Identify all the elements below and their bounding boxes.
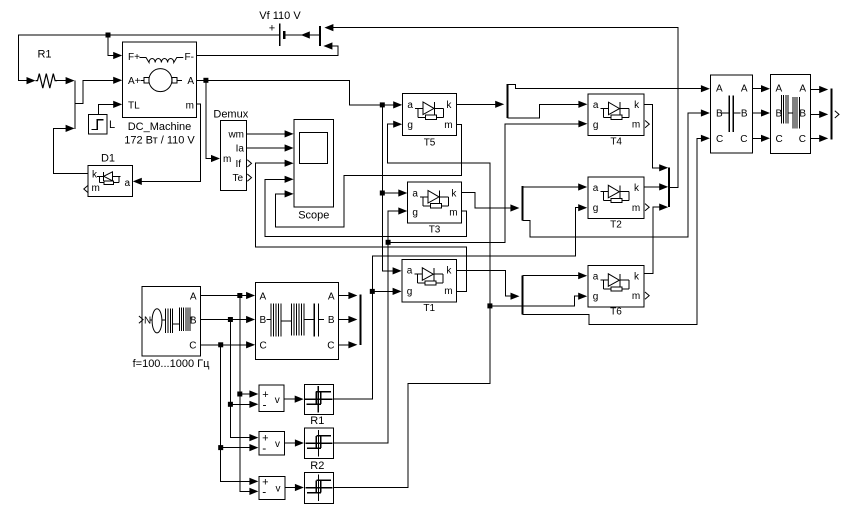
svg-text:R2: R2	[310, 460, 324, 472]
svg-text:a: a	[593, 100, 599, 111]
svg-text:B: B	[716, 109, 723, 120]
node source C branch	[218, 342, 223, 347]
wire Demux wm to Scope	[247, 130, 294, 137]
svg-text:172 Вт / 110 V: 172 Вт / 110 V	[124, 135, 195, 147]
wire DC+ feedback from bridge to battery bar	[324, 24, 677, 188]
svg-text:-: -	[263, 398, 267, 412]
node R3 gate branch	[487, 303, 492, 308]
wire R2 gate branch to T4 g	[388, 120, 587, 242]
svg-text:m: m	[223, 154, 231, 165]
wire machine m to D1 anode	[133, 104, 201, 185]
wire anode bus vertical to T1	[382, 105, 401, 275]
wire phase bar C to measurement block C input	[523, 135, 710, 325]
svg-text:R1: R1	[37, 49, 51, 61]
node phase C at comp2	[218, 445, 223, 450]
svg-text:A: A	[776, 84, 783, 95]
wire battery-pos to summing bar	[284, 31, 320, 38]
svg-text:Scope: Scope	[298, 210, 329, 222]
unconnected chevron Demux If	[247, 160, 251, 167]
block DC_Machine	[123, 42, 197, 147]
wire waveform A to mux bar	[810, 86, 828, 93]
wire T3 k to phase bar B	[461, 193, 519, 212]
svg-text:A+: A+	[128, 76, 141, 87]
thyristor block T6	[588, 266, 649, 318]
svg-text:m: m	[444, 120, 452, 131]
svg-text:a: a	[407, 266, 413, 277]
wire source A to transformer A	[201, 292, 256, 299]
wire phase A to comparator inputs	[240, 296, 259, 496]
svg-text:v: v	[275, 395, 280, 406]
svg-text:T1: T1	[423, 303, 435, 314]
wire armature node vertical	[74, 81, 76, 129]
wire R3 gate branch to T6 g	[490, 293, 587, 306]
svg-text:Demux: Demux	[213, 109, 248, 121]
svg-text:a: a	[412, 188, 418, 199]
svg-text:v: v	[276, 483, 281, 494]
node phase bar C	[522, 276, 524, 315]
step source L	[88, 115, 115, 134]
wire meas C to waveform C	[753, 135, 770, 142]
node R1 gate branch	[370, 289, 375, 294]
block Scope	[294, 120, 334, 222]
svg-text:T4: T4	[610, 137, 622, 148]
svg-text:g: g	[593, 203, 599, 214]
block Demux	[213, 109, 248, 191]
svg-text:F-: F-	[185, 52, 194, 63]
svg-text:g: g	[593, 291, 599, 302]
wire T4 k to DC+ bar	[644, 104, 668, 171]
wire relay R2 gate line to T3 g	[333, 207, 407, 443]
svg-text:A: A	[716, 84, 723, 95]
wire node to F+ port	[108, 35, 122, 59]
unconnected chevron Demux Te	[247, 174, 251, 181]
wire meas B to waveform B	[753, 109, 770, 116]
node anode branch at T5	[380, 102, 385, 107]
svg-text:T3: T3	[429, 225, 441, 236]
svg-text:R1: R1	[310, 415, 324, 427]
block waveform ABC	[771, 74, 811, 153]
svg-text:a: a	[593, 183, 599, 194]
node mux bar right	[830, 89, 832, 140]
svg-text:C: C	[327, 340, 334, 351]
thyristor block T3	[408, 182, 462, 235]
thyristor block T5	[403, 94, 457, 149]
source block f=100...1000 Hz	[133, 286, 210, 370]
wire source B to transformer B	[201, 316, 256, 323]
wire T1 k to phase bar C	[456, 271, 519, 300]
transformer block ABC	[256, 283, 339, 360]
wire phase bar B to T2 a	[522, 183, 587, 190]
relay R1	[304, 384, 333, 427]
wire Demux Ia to Scope	[247, 144, 294, 151]
svg-text:f=100...1000 Гц: f=100...1000 Гц	[133, 358, 210, 370]
svg-text:-: -	[262, 485, 266, 499]
svg-text:A: A	[328, 291, 335, 302]
diode block D1	[88, 153, 132, 197]
svg-text:T6: T6	[610, 307, 622, 318]
node bar at battery	[319, 26, 321, 46]
wire anode branch to T3 a	[382, 189, 407, 196]
node phase B at comp1	[228, 402, 233, 407]
svg-text:a: a	[593, 272, 599, 283]
svg-text:Te: Te	[232, 173, 243, 184]
wire phase C to comparator inputs	[221, 345, 259, 485]
svg-text:m: m	[444, 286, 452, 297]
svg-text:N: N	[144, 315, 151, 326]
svg-text:C: C	[776, 134, 783, 145]
svg-text:C: C	[799, 134, 806, 145]
wire node to Demux m input	[206, 80, 220, 162]
svg-text:D1: D1	[101, 153, 115, 165]
svg-text:B: B	[328, 315, 335, 326]
unconnected chevron D1 m	[84, 185, 88, 192]
wire F- return to battery bar	[196, 42, 338, 55]
svg-text:g: g	[412, 208, 418, 219]
wire comp1 to relay R1	[284, 396, 304, 403]
svg-text:Vf 110 V: Vf 110 V	[259, 10, 301, 22]
wire R1 gate branch to T1 g	[372, 288, 401, 295]
wire relay R1 gate line to T2 g	[333, 204, 587, 399]
svg-text:+: +	[269, 23, 275, 35]
wire T3 m measurement loop to Scope input 4	[265, 176, 466, 237]
wire waveform C to mux bar	[810, 135, 828, 142]
svg-text:A: A	[187, 76, 194, 87]
svg-text:T5: T5	[424, 138, 436, 149]
node source B branch	[228, 317, 233, 322]
wire D1 cathode to armature node	[54, 125, 88, 174]
svg-text:g: g	[407, 286, 413, 297]
comparator U1	[259, 385, 284, 412]
svg-text:g: g	[593, 120, 599, 131]
thyristor block T1	[402, 260, 456, 315]
svg-text:B: B	[260, 315, 267, 326]
wire phase bar A to T4 a	[508, 101, 588, 119]
wire transformer A out to bus bar	[339, 292, 358, 299]
wire phase bar B to measurement block B input	[522, 109, 710, 236]
comparator U2	[259, 432, 285, 455]
wire phase bar C to T6 a	[523, 272, 588, 279]
thyristor block T2	[588, 177, 649, 231]
svg-text:DC_Machine: DC_Machine	[128, 121, 192, 133]
wire T5 k to phase bar A	[456, 101, 504, 108]
relay R3	[305, 472, 334, 503]
wire armature A to T5 anode	[196, 80, 402, 108]
svg-text:Ia: Ia	[236, 143, 245, 154]
svg-text:m: m	[186, 101, 194, 112]
svg-text:C: C	[189, 340, 196, 351]
node DC+ bar	[668, 168, 670, 208]
svg-text:TL: TL	[128, 101, 140, 112]
svg-text:A: A	[190, 292, 197, 303]
wire node jog to A+ port	[75, 77, 122, 104]
svg-text:g: g	[407, 120, 413, 131]
wire R1 output to armature node	[56, 77, 75, 84]
svg-text:If: If	[235, 159, 241, 170]
svg-text:a: a	[124, 178, 130, 189]
svg-text:m: m	[632, 203, 640, 214]
wire T6 k to DC+ bar	[644, 204, 668, 274]
wire waveform B to mux bar	[810, 111, 828, 118]
wire T2 k to DC+ bar	[644, 183, 668, 190]
node transformer output bar	[360, 295, 362, 346]
svg-text:B: B	[799, 109, 806, 120]
wire battery-neg to R1 and F+ node	[19, 35, 280, 84]
svg-text:m: m	[449, 207, 457, 218]
wire phase bar A to measurement block A input	[508, 85, 710, 93]
svg-text:a: a	[407, 100, 413, 111]
svg-text:T2: T2	[610, 220, 622, 231]
wire comp3 to relay R3	[285, 484, 304, 491]
wire meas A to waveform A	[753, 85, 770, 92]
node phase bar B	[521, 186, 523, 220]
wire T5 m measurement loop to Scope input 5	[275, 125, 461, 227]
wire transformer C out to bus bar	[339, 341, 358, 348]
svg-text:B: B	[190, 316, 197, 327]
thyristor block T4	[588, 94, 649, 148]
svg-text:C: C	[716, 134, 723, 145]
relay R2	[305, 428, 334, 472]
svg-text:m: m	[632, 120, 640, 131]
svg-text:m: m	[92, 183, 100, 194]
block voltage measurement ABC	[711, 75, 753, 153]
wire transformer B out to bus bar	[339, 316, 358, 323]
node R2 gate branch	[386, 240, 391, 245]
svg-text:A: A	[260, 291, 267, 302]
node battery-F+ junction	[106, 33, 111, 38]
wire T1 m measurement loop to Scope input 3	[256, 160, 467, 292]
node phase bar A	[507, 84, 509, 118]
svg-text:B: B	[741, 109, 748, 120]
node anode branch at T3	[380, 191, 385, 196]
unconnected chevron mux output	[835, 111, 839, 118]
svg-text:A: A	[799, 84, 806, 95]
svg-text:A: A	[741, 84, 748, 95]
wire relay R3 gate line to T5 g	[333, 121, 490, 488]
svg-text:wm: wm	[227, 129, 244, 140]
svg-text:v: v	[275, 439, 280, 450]
wire source C to transformer C	[201, 341, 256, 348]
resistor R1	[36, 49, 58, 89]
voltage source Vf 110 V	[259, 10, 301, 46]
wire comp2 to relay R2	[285, 439, 304, 446]
svg-text:F+: F+	[128, 52, 140, 63]
svg-text:-: -	[262, 441, 266, 455]
svg-text:m: m	[632, 291, 640, 302]
comparator U3	[259, 476, 285, 499]
node source A branch	[237, 293, 242, 298]
node phase A at comp1	[237, 392, 242, 397]
svg-text:C: C	[260, 340, 267, 351]
node armature A branch	[203, 78, 208, 83]
unconnected chevron source N input	[139, 316, 143, 323]
wire L to TL port	[99, 101, 123, 115]
svg-text:C: C	[740, 134, 747, 145]
svg-text:L: L	[109, 119, 115, 131]
wire phase B to comparator inputs	[230, 320, 258, 442]
